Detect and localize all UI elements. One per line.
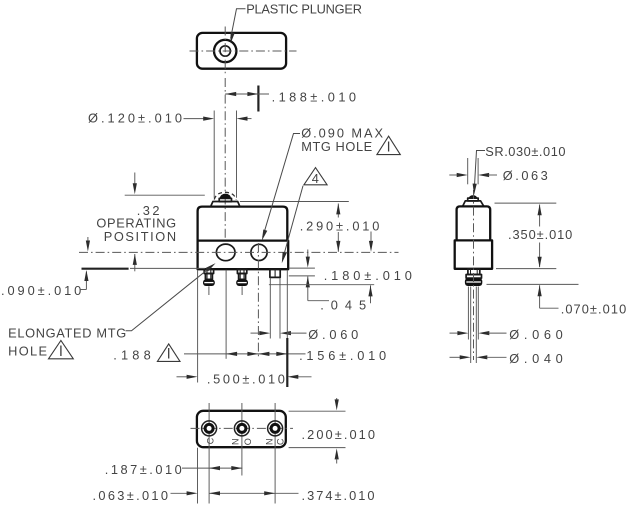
terminal 2 (middle) flange: [237, 269, 246, 273]
dim .32: down arrow to free position line: [134, 173, 136, 185]
dim .180: bottom arrow: [370, 285, 372, 303]
dim .063: arrow: [171, 492, 189, 494]
dim dia .120: left arrow: [184, 118, 208, 120]
terminal 1 (left) flange: [204, 269, 213, 273]
dim .350: top extension line: [495, 202, 557, 204]
side view: lower body: [455, 240, 492, 268]
svg-text:SR.030±.010: SR.030±.010: [485, 144, 565, 159]
dim .187: dimension line: [182, 467, 242, 469]
svg-text:N: N: [264, 438, 274, 445]
svg-text:PLASTIC PLUNGER: PLASTIC PLUNGER: [246, 2, 362, 17]
side view: plunger base trapezoid: [463, 201, 484, 207]
free position extension line: [125, 194, 205, 196]
terminal 3 vertical centerline: [274, 403, 276, 504]
bottom view: body outline: [197, 411, 286, 447]
svg-text:.374±.010: .374±.010: [302, 488, 375, 503]
svg-text:.090±.010: .090±.010: [1, 283, 81, 298]
leader SR.030 to plunger tip: [475, 151, 486, 186]
body bottom extension left: thin part: [130, 267, 205, 269]
top view: plunger outer circle: [214, 40, 236, 62]
dim .090: elbow and up arrow: [80, 289, 86, 291]
top view: horizontal centerline: [190, 50, 297, 52]
terminal 1 vertical centerline: [208, 403, 210, 504]
bottom terminal 2 ring: [236, 423, 247, 434]
dim .500: left arrow: [177, 376, 191, 378]
svg-text:C: C: [205, 437, 215, 444]
terminal 2 vertical centerline: [241, 403, 243, 476]
svg-text:.070±.010: .070±.010: [561, 302, 627, 317]
svg-text:Ø.040: Ø.040: [509, 351, 563, 366]
side bead bottom extension line: [487, 283, 579, 285]
plunger seat extension line to .290: [240, 201, 349, 203]
extension line body left edge down: [197, 270, 199, 383]
flag triangle 1 after .188: [157, 344, 180, 362]
svg-text:.045: .045: [320, 298, 366, 313]
dim .188 top: thick terminator line: [257, 86, 259, 112]
dim dia .120: right arrow: [243, 118, 252, 120]
front view: left elongated mounting hole: [216, 244, 235, 261]
dim .500: right arrow: [295, 376, 312, 378]
front view: vertical centerline through plunger and body: [224, 196, 226, 241]
svg-text:Ø.060: Ø.060: [308, 327, 358, 342]
dim .290: dimension line with arrows: [337, 204, 339, 218]
side view: upper body: [457, 206, 491, 240]
dim dia .060 side: arrows: [450, 332, 459, 334]
extension line stub right down: [279, 278, 281, 339]
extension line bottom body left edge: [197, 448, 199, 504]
terminal 1 neck: [205, 274, 212, 280]
terminal 1 centerline stub below: [208, 286, 210, 295]
svg-text:.187±.010: .187±.010: [105, 462, 182, 477]
dim .045: bottom arrow and elbow: [307, 276, 309, 300]
front view: lower body band: [198, 241, 289, 270]
top view: plunger inner circle: [220, 46, 230, 56]
front view: horizontal centerline through holes: [79, 251, 399, 253]
body bottom extension left: thick part: [82, 268, 129, 270]
bottom view: horizontal centerline: [191, 427, 294, 429]
dim dia .040 side: arrows: [450, 356, 461, 358]
top view: vertical centerline: [224, 27, 226, 74]
side view: terminal neck inner lines: [470, 269, 472, 275]
dim .188 top: dimension line: [225, 93, 269, 95]
svg-text:Ø.060: Ø.060: [509, 327, 563, 342]
terminal 2 bead: [236, 279, 248, 286]
front view: free position dashed dome: [214, 192, 236, 199]
svg-text:Ø.063: Ø.063: [503, 168, 548, 183]
leader from dia .090 to right hole: [263, 134, 300, 238]
terminal bottom extension line (long, to .180): [269, 284, 374, 286]
plunger centerline above front view: [224, 78, 226, 193]
dim dia .060 front: arrows: [251, 332, 264, 334]
body bottom extension right: [289, 267, 315, 269]
plunger extension line left: [213, 111, 215, 198]
svg-text:N: N: [231, 438, 241, 445]
terminal 2 bead slit: [238, 282, 247, 284]
terminal 1 bead slit: [204, 282, 213, 284]
dim .200: arrows: [336, 398, 338, 401]
side view: terminal bead slit: [466, 281, 481, 283]
side view: plunger stem rect: [468, 198, 479, 201]
terminal 1 inner lines: [206, 269, 208, 279]
svg-text:.500±.010: .500±.010: [207, 372, 285, 387]
front view: right mounting hole: [251, 244, 267, 260]
side view: vertical centerline: [473, 190, 475, 360]
svg-text:O: O: [243, 438, 253, 445]
svg-text:ELONGATED MTG: ELONGATED MTG: [8, 326, 126, 341]
extension line stub left down: [269, 278, 271, 339]
svg-text:.188: .188: [113, 348, 151, 363]
terminal 1 bead: [203, 279, 215, 286]
bottom terminal 3 outer circle: [268, 421, 283, 436]
svg-text:.180±.010: .180±.010: [324, 268, 412, 283]
side view: terminal neck: [468, 269, 480, 275]
dim .070: up arrow, elbow: [539, 285, 541, 308]
leader from triangle 4 to right terminal: [283, 186, 303, 260]
svg-text:MTG HOLE: MTG HOLE: [301, 139, 372, 154]
bottom terminal 3 ring: [270, 423, 281, 434]
front view: upper body outline: [198, 207, 288, 241]
dim dia .063: arrows: [449, 174, 458, 176]
leader to plastic plunger: [231, 9, 246, 39]
svg-text:.350±.010: .350±.010: [508, 227, 572, 242]
bottom terminal 2 outer circle: [234, 421, 249, 436]
side view: plunger dome (filled): [469, 195, 478, 198]
svg-text:C: C: [275, 438, 285, 445]
terminal 3 (right) stub: [270, 269, 280, 277]
dim .32: up arrow to centerline: [134, 254, 136, 271]
side body bottom extension line: [496, 268, 556, 270]
terminal 3 inner line: [274, 269, 276, 277]
svg-text:.290±.010: .290±.010: [300, 219, 380, 234]
side view: terminal flange: [466, 275, 481, 279]
svg-text:.188±.010: .188±.010: [272, 90, 356, 105]
dim .045: top arrow: [307, 250, 309, 258]
front view: plunger stem rect: [219, 198, 231, 201]
dim .180: top arrow: [370, 232, 372, 242]
stub bottom extension right: [289, 275, 315, 277]
flag triangle 1 after HOLE: [49, 341, 74, 359]
plunger extension line right: [236, 111, 238, 198]
extension line body right edge down (thick): [286, 338, 288, 387]
terminal 2 inner lines: [239, 269, 241, 279]
dim .090: down arrow above centerline: [87, 237, 89, 243]
svg-text:POSITION: POSITION: [104, 229, 176, 244]
svg-text:.200±.010: .200±.010: [302, 427, 376, 442]
front view: plunger dome (operating position, filled): [220, 194, 231, 199]
svg-text:HOLE: HOLE: [8, 344, 47, 359]
svg-text:Ø.120±.010: Ø.120±.010: [88, 111, 182, 126]
dim .350: dimension line and arrows: [539, 205, 541, 227]
top view: switch body outline: [197, 33, 286, 69]
side view: terminal bead: [465, 278, 482, 286]
extension line plunger center down: [225, 270, 227, 359]
extension centerline right hole down (dash-dot): [257, 243, 259, 359]
extension line body right edge down (thin): [286, 270, 288, 338]
flag triangle 1 after MTG HOLE: [377, 136, 400, 154]
side view: outer extension pair below: [467, 287, 469, 340]
terminal 2 centerline stub below: [241, 286, 243, 295]
side view: inner extension pair below: [470, 287, 472, 364]
terminal 2 neck: [239, 274, 246, 280]
flag triangle 4: [304, 168, 327, 185]
svg-text:.156±.010: .156±.010: [299, 348, 386, 363]
dim dia .063: extension lines: [467, 158, 469, 184]
bottom terminal 1 outer circle: [202, 421, 217, 436]
dim .188/.156 bottom: dimension line: [184, 353, 306, 355]
front view: plunger base trapezoid: [211, 202, 240, 207]
dim .200: extension lines: [289, 410, 346, 412]
dim .374: dimension line: [209, 492, 299, 494]
leader from ELONGATED to left hole: [126, 265, 213, 331]
svg-text:.063±.010: .063±.010: [93, 488, 169, 503]
bottom terminal 1 ring: [204, 423, 215, 434]
svg-text:4: 4: [312, 171, 319, 186]
